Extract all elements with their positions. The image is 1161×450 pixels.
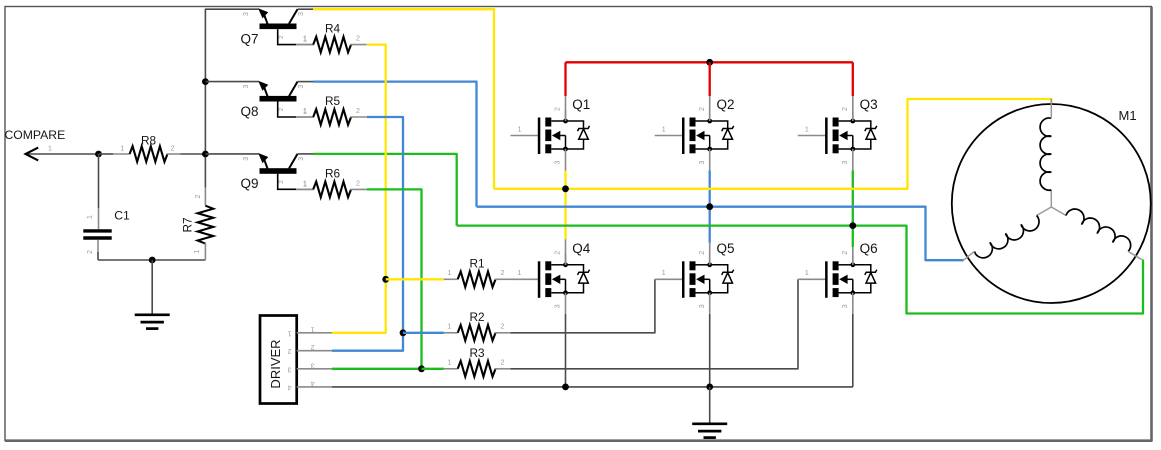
wire phase A yellow top [313,9,494,189]
node blue junction [400,329,407,336]
wire driver pin1 yellow [332,279,386,333]
resistor R8 [130,146,168,162]
svg-text:2: 2 [171,146,175,153]
svg-text:DRIVER: DRIVER [268,339,283,388]
wire Q5 source to bus [709,304,711,314]
resistor R3 [458,361,496,377]
wire Q4 drain yellow [564,189,566,240]
wire R3 pin1 lead [444,368,458,370]
wire phase B row blue [477,207,964,261]
node bus Q5 [706,384,713,391]
wire R6 pin2 lead [350,188,367,190]
svg-text:2: 2 [195,194,202,198]
svg-text:1: 1 [303,108,307,115]
wire driver pin2 blue [332,333,403,351]
node yellow junction [382,276,389,283]
wire driver pin3 green [332,368,422,370]
wire Q7 collector [298,8,314,10]
wire R8 to rail [167,153,181,155]
wire R2 to Q5 gate [511,279,655,333]
motor winding C [1051,197,1134,251]
svg-text:1: 1 [448,323,452,330]
node phase A junction [562,185,569,192]
node phase B junction [706,203,713,210]
wire R3 pin2 lead [495,368,511,370]
driver pin 2 lead [297,350,332,352]
wire rail to Q8 [205,81,258,83]
wire Q1 source yellow [565,161,567,171]
wire bus to ground [709,387,711,423]
ground (center) [692,424,727,438]
svg-text:1: 1 [87,215,94,219]
svg-text:4: 4 [287,383,291,390]
wire R3 to Q6 gate [511,279,799,369]
wire base lead to R5 [296,116,313,118]
svg-text:2: 2 [501,323,505,330]
resistor R5 [313,109,351,125]
wire V+ red rail [566,61,853,63]
wire red drop Q2 [709,62,711,96]
capacitor C1 top wire [98,154,100,208]
svg-text:2: 2 [501,270,505,277]
wire Q6 source to bus [852,304,854,314]
svg-text:2: 2 [287,347,291,354]
svg-text:1: 1 [448,270,452,277]
svg-text:1: 1 [311,325,315,332]
wire phase C green top [313,154,457,226]
wire left rail [205,9,258,154]
transistor Q7 [243,8,314,44]
capacitor C1 bottom wire [97,240,99,252]
svg-text:2: 2 [356,36,360,43]
wire R5 pin2 lead [350,116,367,118]
svg-text:1: 1 [194,249,201,253]
svg-text:1: 1 [303,36,307,43]
wire phase B blue top [313,82,477,207]
svg-text:Q5: Q5 [717,241,735,256]
wire C1 to R7 bottom [98,259,205,261]
svg-text:1: 1 [48,146,52,153]
wire red drop Q1 [564,62,566,96]
node bus Q4 [562,384,569,391]
mosfet Q3 [798,107,877,165]
svg-text:2: 2 [356,181,360,188]
svg-text:2: 2 [311,343,315,350]
wire to ground [151,260,153,314]
resistor R6 [313,182,351,198]
svg-text:Q2: Q2 [717,97,735,112]
svg-text:Q8: Q8 [241,104,259,119]
capacitor C1 [83,229,111,232]
svg-text:1: 1 [303,181,307,188]
motor winding A [1040,118,1051,207]
wire R1 pin2 lead [495,278,511,280]
resistor R1 [458,272,496,288]
wire green to R3 [422,368,444,370]
svg-text:3: 3 [287,365,291,372]
resistor R7 [204,154,206,188]
node ground junction [149,257,156,264]
wire Q3 source green [852,161,854,171]
wire red drop Q3 [852,62,854,96]
wire COMPARE stub with arrow [25,153,99,155]
svg-text:COMPARE: COMPARE [5,128,66,142]
svg-text:R7: R7 [181,217,195,232]
node rail-Q8 [202,78,209,85]
wire phase A row yellow [494,99,1051,189]
mosfet Q1 [511,107,590,165]
svg-text:Q4: Q4 [572,241,591,256]
svg-text:R6: R6 [325,166,341,180]
motor winding B [974,207,1057,261]
wire yellow to R1 [386,278,444,280]
driver pin 3 lead [297,368,332,370]
transistor Q8 [243,81,314,117]
wire R2 pin2 lead [495,332,511,334]
driver pin 1 lead [297,332,332,334]
mosfet Q6 [798,251,877,309]
wire base lead to R6 [296,188,313,190]
svg-text:Q6: Q6 [860,241,878,256]
resistor R4 [313,37,351,53]
svg-text:C1: C1 [114,208,130,222]
resistor R2 [458,325,496,341]
wire Q9 collector [298,153,314,155]
svg-text:R3: R3 [469,346,485,360]
svg-text:4: 4 [311,379,315,386]
wire Q4 source to bus [565,304,567,314]
svg-text:3: 3 [311,361,315,368]
wire rail to Q9 [205,153,258,155]
wire R1 pin1 lead [444,278,458,280]
svg-text:2: 2 [87,250,94,254]
mosfet Q2 [655,107,734,165]
svg-text:R1: R1 [469,256,484,270]
wire R4 to driver net yellow [367,45,386,280]
svg-text:1: 1 [121,146,125,153]
motor M1 body [952,104,1151,303]
svg-text:1: 1 [287,329,291,336]
svg-text:R4: R4 [325,22,341,36]
wire R5 to driver net blue [367,117,403,333]
wire R4 pin2 lead [350,44,367,46]
svg-text:2: 2 [356,108,360,115]
wire node to R8 [99,153,114,155]
wire R6 to driver net green [367,189,422,368]
svg-text:R8: R8 [141,134,157,148]
node rail-R8-Q9 [202,151,209,158]
mosfet Q5 [655,251,734,309]
svg-text:Q9: Q9 [241,176,259,191]
node red rail Q2 tap [706,59,713,66]
svg-text:Q3: Q3 [860,97,878,112]
node phase C junction [849,222,856,229]
svg-text:Q7: Q7 [241,31,259,46]
wire phase C row green [457,226,1143,314]
node green junction [418,365,425,372]
svg-text:R2: R2 [469,310,484,324]
wire base lead to R4 [296,44,313,46]
wire Q8 collector [298,81,314,83]
wire Q2 source blue [709,161,711,171]
mosfet Q4 [511,251,590,309]
svg-text:1: 1 [448,359,452,366]
wire Q6 drain green [852,226,854,247]
ground (left) [135,315,170,329]
wire R2 pin1 lead [444,332,458,334]
driver pin 4 lead [297,386,332,388]
wire blue to R2 [403,332,444,334]
driver U1 box [260,316,297,404]
node COMPARE junction [95,151,102,158]
wire Q5 drain blue [709,207,711,243]
svg-text:R5: R5 [325,94,341,108]
svg-text:2: 2 [501,359,505,366]
wire driver pin4 / ground bus [332,386,853,388]
svg-text:Q1: Q1 [572,97,590,112]
svg-text:M1: M1 [1119,108,1137,123]
transistor Q9 [243,153,314,189]
